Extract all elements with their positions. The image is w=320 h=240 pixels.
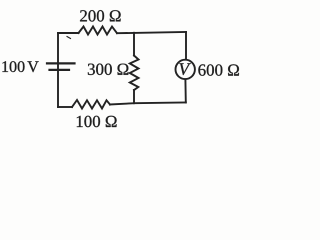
stray tick mark [67,37,71,39]
wire right upper [185,32,187,60]
wire bottom left [58,106,72,108]
resistor 200 ohm [79,27,118,35]
wire right lower [184,79,186,102]
wire top right [117,32,186,33]
voltmeter letter V [179,63,190,75]
wire left side [57,33,59,107]
battery 100 V long plate [47,62,75,64]
label 100 V unit [27,61,38,72]
label 200 ohm [80,10,121,21]
resistor 300 ohm [130,56,139,91]
wire middle branch lower [133,90,135,103]
label 100 ohm [77,116,117,127]
resistor 100 ohm [72,100,110,109]
wire bottom right [110,103,186,105]
label 100 V digits [2,61,24,72]
label 300 ohm [88,64,128,75]
battery 100 V short plate [50,69,70,71]
wire top left [58,32,79,34]
voltmeter V [176,60,195,79]
wire middle branch upper [133,33,135,56]
label 600 ohm [198,64,239,75]
